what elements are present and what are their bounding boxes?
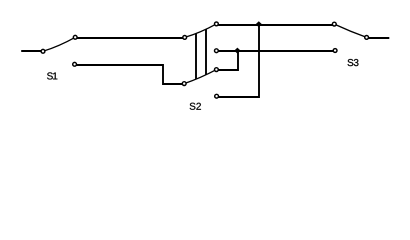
wire crossover from node J1 down and left to S2 R4 terminal: [218, 25, 259, 97]
wire S2 R2 terminal to S3 bottom contact: [218, 50, 333, 52]
switch S1 top contact terminal: [73, 35, 77, 39]
label S2: [190, 103, 201, 110]
wire input feed to S1 common: [21, 50, 41, 52]
switch S2 left-bottom terminal: [182, 82, 186, 86]
switch S1 bottom contact terminal: [73, 62, 77, 66]
switch S3 top contact terminal: [332, 22, 336, 26]
switch S2 left-top terminal: [183, 36, 187, 40]
label S1: [47, 72, 57, 79]
switch S3 bottom contact terminal: [333, 49, 337, 53]
node J1 junction dot: [256, 21, 262, 27]
wire from node J2 down and left to S2 R3 terminal: [218, 51, 238, 70]
switch S2 right terminal R3: [215, 68, 219, 72]
switch S2 right terminal R2: [215, 49, 219, 53]
node J2 junction dot: [234, 48, 240, 54]
switch S1 lever (common to top contact): [43, 37, 75, 51]
wire output from S3 common: [368, 37, 389, 39]
switch S3 common terminal: [365, 36, 369, 40]
switch S1 common terminal: [41, 49, 45, 53]
wire S1 bottom contact to S2 left-bottom terminal: [77, 65, 183, 84]
wire S2 R1 terminal to S3 top contact: [218, 24, 332, 26]
switch S2 right terminal R1: [215, 22, 219, 26]
switch S2 linkage bar right: [205, 29, 207, 74]
switch S3 lever (top contact to common): [334, 24, 366, 37]
switch S2 bottom lever: [184, 70, 216, 84]
switch S2 top lever: [185, 24, 217, 38]
wire S1 top contact to S2 left-top terminal: [77, 37, 183, 39]
label S3: [348, 59, 359, 66]
switch S2 linkage bar left: [195, 34, 197, 79]
switch S2 right terminal R4: [215, 94, 219, 98]
